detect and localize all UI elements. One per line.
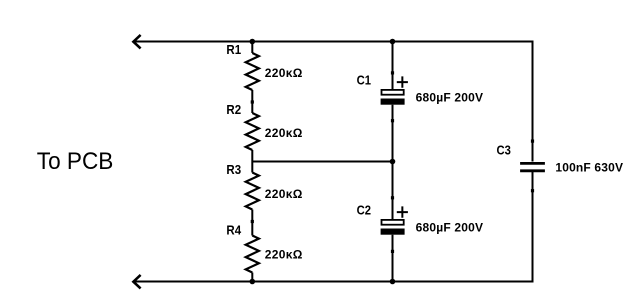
wire top horizontal: [134, 41, 533, 43]
capacitor C1 top plate: [382, 90, 404, 95]
svg-text:C3: C3: [497, 143, 512, 158]
node nub R1-R2: [251, 100, 254, 103]
wire resistor chain top lead: [251, 42, 253, 54]
svg-text:220κΩ: 220κΩ: [265, 247, 303, 261]
resistor R3: [246, 173, 259, 210]
wire middle horizontal: [252, 161, 392, 163]
node dot bottom at R4: [250, 279, 256, 285]
capacitor C1 plus sign: [397, 76, 408, 87]
wire R4 bottom lead: [251, 273, 253, 282]
capacitor C2 bottom plate: [381, 229, 405, 235]
svg-text:220κΩ: 220κΩ: [265, 66, 303, 80]
wire R1-R2: [251, 90, 253, 113]
node nub above C3: [531, 140, 534, 143]
wire right vertical upper (to C3): [532, 41, 534, 162]
wire C2 bottom lead: [392, 235, 394, 282]
svg-text:R2: R2: [226, 103, 241, 118]
capacitor C2 plus sign: [397, 206, 408, 217]
capacitor C1 bottom plate: [381, 99, 405, 105]
wire right vertical lower (from C3): [532, 172, 534, 283]
resistor R1: [246, 53, 259, 90]
capacitor C2 top plate: [382, 220, 404, 225]
svg-text:220κΩ: 220κΩ: [265, 187, 303, 201]
node dot top at C1: [390, 39, 396, 45]
resistor R2: [246, 113, 259, 150]
resistor R4: [246, 236, 259, 273]
svg-text:680µF 200V: 680µF 200V: [416, 90, 484, 104]
node dot middle at C1/C2: [390, 159, 396, 165]
arrowhead bottom-left: [133, 275, 140, 289]
svg-text:To PCB: To PCB: [37, 147, 114, 174]
node nub above C1: [391, 71, 394, 74]
wire C2 top lead: [392, 162, 394, 220]
wire R3-R4: [251, 210, 253, 236]
wire R2 to middle node: [251, 150, 253, 173]
svg-text:R3: R3: [226, 163, 241, 178]
node dot bottom at C2: [390, 279, 396, 285]
node nub R3-R4: [251, 220, 254, 223]
node nub below C1: [391, 119, 394, 122]
node nub below C3: [531, 189, 534, 192]
arrowhead top-left: [133, 35, 140, 49]
node dot top at R1: [250, 39, 256, 45]
svg-text:R1: R1: [226, 43, 241, 58]
node nub below C2: [391, 250, 394, 253]
wire C1 top lead: [392, 42, 394, 90]
svg-text:R4: R4: [226, 223, 241, 238]
wire bottom horizontal: [134, 281, 533, 283]
svg-text:C1: C1: [357, 73, 372, 88]
capacitor C3 bottom plate: [520, 169, 545, 172]
svg-text:100nF 630V: 100nF 630V: [555, 161, 623, 175]
svg-text:680µF 200V: 680µF 200V: [416, 220, 484, 234]
svg-text:220κΩ: 220κΩ: [265, 126, 303, 140]
node nub above C2: [391, 196, 394, 199]
capacitor C3 top plate: [520, 162, 545, 165]
wire C1 bottom lead: [392, 105, 394, 162]
svg-text:C2: C2: [357, 203, 372, 218]
